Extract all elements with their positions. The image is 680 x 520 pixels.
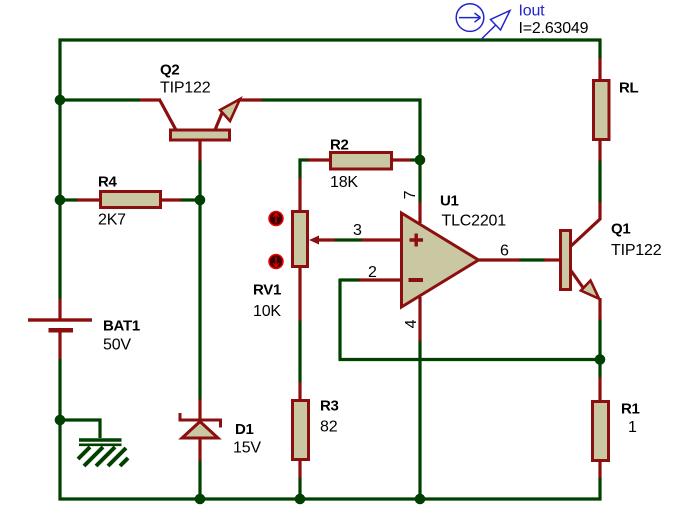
resistor R3 pin top <box>298 382 301 400</box>
wire node to D1 anode <box>198 200 201 400</box>
wire ground connection <box>60 420 100 438</box>
svg-text:18K: 18K <box>330 174 358 191</box>
wire D1 to bottom rail <box>198 460 201 499</box>
potentiometer RV1 down button <box>269 255 283 269</box>
transistor Q2 emitter pin right <box>238 98 262 101</box>
wire Q2 base down to node <box>198 160 201 200</box>
transistor Q2 base pin <box>198 140 201 161</box>
diode D1 anode pin <box>198 439 201 461</box>
node junction dot (420,160) <box>415 155 426 166</box>
wire pot bottom to R3 <box>298 320 301 382</box>
potentiometer RV1 wiper arrowhead <box>309 236 319 245</box>
svg-text:I=2.63049: I=2.63049 <box>519 20 589 37</box>
op-amp U1 pin 2 stub <box>359 278 401 281</box>
resistor R2 body <box>331 153 392 170</box>
resistor R1 pin top <box>598 377 601 401</box>
resistor R2 pin right <box>391 158 411 161</box>
wire corner down to pin 7 <box>418 99 421 204</box>
wire left rail upper <box>58 39 61 300</box>
node junction dot (200,200) <box>195 195 206 206</box>
svg-text:2: 2 <box>368 264 377 281</box>
resistor R4 pin right <box>161 198 181 201</box>
svg-text:1: 1 <box>628 419 637 436</box>
op-amp U1 pin 7 stub <box>418 202 421 223</box>
node junction dot (200,499) <box>195 494 206 505</box>
potentiometer RV1 up button <box>269 212 283 226</box>
svg-text:2K7: 2K7 <box>98 212 126 229</box>
wire right column below RL corner <box>598 39 601 60</box>
wire R2 left corner to pot <box>300 160 309 179</box>
node junction dot (60,420) <box>55 415 66 426</box>
svg-text:10K: 10K <box>253 303 281 320</box>
resistor R1 body <box>593 402 609 461</box>
wire Q2 emitter to corner <box>261 98 422 101</box>
resistor RL pin bottom <box>598 140 601 161</box>
op-amp U1 pin 4 stub <box>418 297 421 341</box>
node junction dot (60,100) <box>55 95 66 106</box>
current probe Iout <box>456 4 510 40</box>
svg-text:3: 3 <box>353 222 362 239</box>
wire op-amp output <box>519 258 545 261</box>
wire RL to Q1 collector <box>598 160 601 203</box>
svg-text:U1: U1 <box>440 193 459 210</box>
svg-text:7: 7 <box>402 190 419 199</box>
transistor Q2 collector pin <box>140 100 176 130</box>
transistor Q1 emitter diagonal <box>571 270 585 289</box>
svg-text:R1: R1 <box>621 401 640 418</box>
potentiometer RV1 pin top <box>298 178 301 211</box>
wire top rail <box>59 38 602 41</box>
svg-text:D1: D1 <box>235 421 254 438</box>
resistor R4 pin left <box>77 198 100 201</box>
op-amp U1 body <box>402 213 479 307</box>
transistor Q1 collector pin <box>571 202 600 246</box>
wire R4 left <box>60 198 78 201</box>
diode D1 cathode pin <box>198 399 201 420</box>
transistor Q1 emitter pin lower <box>598 298 601 320</box>
svg-text:R4: R4 <box>98 174 118 191</box>
wire pin 4 down to bottom rail <box>418 340 421 499</box>
svg-text:Q1: Q1 <box>611 221 630 238</box>
svg-text:RL: RL <box>619 80 639 97</box>
potentiometer RV1 body <box>293 212 308 267</box>
wire R3 bottom to rail <box>298 477 301 499</box>
svg-text:4: 4 <box>403 319 420 328</box>
svg-text:TIP122: TIP122 <box>611 242 662 259</box>
svg-text:15V: 15V <box>233 440 261 457</box>
svg-text:50V: 50V <box>103 337 131 354</box>
svg-text:BAT1: BAT1 <box>103 318 140 335</box>
resistor RL pin top <box>598 58 601 80</box>
op-amp U1 pin 6 stub <box>478 258 520 261</box>
resistor R3 body <box>293 401 309 460</box>
wire feedback horizontal <box>339 358 601 361</box>
resistor R3 pin bottom <box>298 460 301 478</box>
potentiometer RV1 wiper line <box>316 238 335 241</box>
svg-text:6: 6 <box>500 243 509 260</box>
wire feedback vertical <box>338 279 341 360</box>
op-amp U1 pin 3 stub <box>361 238 401 241</box>
resistor R2 pin left <box>308 158 330 161</box>
potentiometer RV1 pin bottom <box>298 267 301 321</box>
ground <box>78 440 128 466</box>
wire rail to Q2 collector <box>60 98 140 101</box>
resistor R1 pin bottom <box>598 461 601 478</box>
svg-text:TIP122: TIP122 <box>160 80 211 97</box>
node junction dot (600,359.5) <box>595 354 606 365</box>
node junction dot (300,499) <box>295 494 306 505</box>
svg-text:R2: R2 <box>330 137 349 154</box>
wire left rail lower <box>58 359 61 501</box>
svg-text:R3: R3 <box>320 398 339 415</box>
wire R4 right <box>180 198 200 201</box>
svg-text:Iout: Iout <box>519 3 546 20</box>
wire pin 2 segment <box>340 278 360 281</box>
battery BAT1 pin top <box>58 299 61 319</box>
transistor Q2 emitter diagonal <box>215 113 222 130</box>
battery BAT1 plates <box>28 318 92 332</box>
wire bottom rail <box>59 497 602 500</box>
node junction dot (60,200) <box>55 195 66 206</box>
diode D1 (zener 15V) <box>180 413 221 438</box>
transistor Q2 body (TIP122) <box>171 99 241 140</box>
battery BAT1 pin bottom <box>58 331 61 359</box>
wire R1 bottom to rail <box>598 477 601 501</box>
svg-text:RV1: RV1 <box>253 282 281 299</box>
node junction dot (420,499) <box>415 494 426 505</box>
wire pin 3 middle segment <box>334 238 362 241</box>
svg-text:Q2: Q2 <box>160 62 179 79</box>
transistor Q1 body (TIP122) <box>561 231 600 299</box>
svg-text:82: 82 <box>320 419 338 436</box>
wire Q1 emitter to node <box>598 319 601 377</box>
resistor RL body <box>594 81 610 140</box>
resistor R4 body <box>101 192 161 208</box>
wire R2 right to node <box>410 158 421 161</box>
svg-text:TLC2201: TLC2201 <box>442 213 507 230</box>
transistor Q1 base pin <box>544 258 560 261</box>
